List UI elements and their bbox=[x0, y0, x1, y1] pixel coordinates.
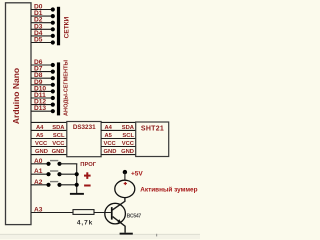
switch S1 PROG bbox=[46, 161, 77, 166]
node +5V bbox=[123, 170, 144, 178]
svg-text:VCC: VCC bbox=[52, 141, 65, 147]
IC U1 Arduino Nano bbox=[6, 3, 32, 225]
ground buttons bbox=[70, 193, 84, 195]
resistor R1 bbox=[73, 210, 94, 227]
wire A5-SCL left bbox=[31, 129, 67, 131]
wire bottom right bridge bbox=[101, 154, 136, 156]
pin D8 bbox=[31, 72, 55, 80]
svg-text:D5: D5 bbox=[34, 37, 43, 44]
svg-text:СЕТКИ: СЕТКИ bbox=[64, 16, 71, 38]
pin D7 bbox=[31, 66, 55, 74]
svg-text:GND: GND bbox=[104, 149, 117, 155]
wire A4-SDA right bbox=[101, 121, 136, 123]
wire VCC left bbox=[31, 138, 67, 140]
pin D1 bbox=[31, 10, 55, 18]
svg-text:SCL: SCL bbox=[53, 133, 65, 139]
wire VCC right bbox=[101, 138, 136, 140]
pin labels left bridge row3 bbox=[35, 141, 65, 147]
svg-text:A3: A3 bbox=[34, 207, 43, 214]
pin labels left bridge row4 bbox=[35, 149, 65, 155]
pin A3 bbox=[31, 207, 73, 214]
pin A1 bbox=[31, 168, 49, 175]
bus bar anode-segments bbox=[57, 62, 60, 115]
svg-text:DS3231: DS3231 bbox=[73, 124, 96, 131]
IC U3 SHT21 bbox=[136, 122, 169, 157]
switch S3 minus bbox=[46, 182, 77, 187]
svg-text:BC547: BC547 bbox=[127, 214, 142, 220]
pin D9 bbox=[31, 79, 55, 87]
svg-text:Активный зуммер: Активный зуммер bbox=[140, 185, 197, 193]
svg-text:SHT21: SHT21 bbox=[141, 125, 164, 132]
wire GND right bbox=[101, 146, 136, 148]
svg-text:VCC: VCC bbox=[104, 141, 117, 147]
pin labels right bridge row2 bbox=[105, 133, 135, 139]
pin labels left bridge row2 bbox=[36, 133, 65, 139]
wire bottom left bridge bbox=[31, 154, 67, 156]
svg-text:GND: GND bbox=[35, 149, 48, 155]
svg-text:A5: A5 bbox=[36, 133, 44, 139]
pin D11 bbox=[31, 92, 55, 100]
junction A2 common bbox=[75, 183, 79, 187]
bus bar grids bbox=[57, 7, 60, 46]
junction A1 common bbox=[75, 172, 79, 176]
svg-text:GND: GND bbox=[121, 149, 134, 155]
pin D5 bbox=[31, 37, 55, 45]
pin D2 bbox=[31, 17, 55, 25]
pin labels left bridge row1 bbox=[36, 125, 65, 131]
svg-text:+5V: +5V bbox=[131, 171, 143, 178]
svg-text:SDA: SDA bbox=[52, 125, 65, 131]
wire A5-SCL right bbox=[101, 129, 136, 131]
bottom edge strip bbox=[0, 235, 200, 239]
svg-text:SCL: SCL bbox=[122, 133, 134, 139]
svg-text:АНОДЫ-СЕГМЕНТЫ: АНОДЫ-СЕГМЕНТЫ bbox=[63, 60, 69, 116]
label plus bbox=[84, 172, 91, 179]
pin A0 bbox=[31, 158, 49, 165]
svg-text:A0: A0 bbox=[34, 158, 43, 165]
wire buttons common vertical bbox=[76, 164, 78, 193]
pin D10 bbox=[31, 85, 55, 93]
svg-text:SDA: SDA bbox=[122, 125, 135, 131]
pin D4 bbox=[31, 30, 55, 38]
svg-text:ПРОГ: ПРОГ bbox=[80, 162, 96, 168]
pin labels right bridge row3 bbox=[104, 141, 135, 147]
wire buzzer to collector bbox=[112, 198, 125, 210]
wire 5V to buzzer bbox=[124, 172, 126, 180]
svg-text:VCC: VCC bbox=[35, 141, 48, 147]
switch S2 plus bbox=[46, 171, 77, 176]
pin D3 bbox=[31, 23, 55, 31]
pin D0 bbox=[31, 4, 55, 12]
bottom tick mark bbox=[156, 234, 157, 237]
svg-text:A4: A4 bbox=[105, 125, 113, 131]
pin labels right bridge row1 bbox=[105, 125, 135, 131]
buzzer BZ1 bbox=[115, 180, 135, 197]
svg-text:Arduino Nano: Arduino Nano bbox=[11, 68, 21, 124]
wire A4-SDA left bbox=[31, 121, 67, 123]
svg-text:GND: GND bbox=[52, 149, 65, 155]
bottom edge line bbox=[0, 233, 200, 236]
svg-text:A4: A4 bbox=[36, 125, 44, 131]
pin A2 bbox=[31, 179, 49, 186]
transistor Q1 BC547 bbox=[94, 203, 141, 232]
pin labels right bridge row4 bbox=[104, 149, 135, 155]
svg-text:A2: A2 bbox=[34, 179, 43, 186]
pin D12 bbox=[31, 99, 55, 107]
label minus bbox=[84, 185, 91, 187]
svg-text:VCC: VCC bbox=[122, 141, 135, 147]
pin D13 bbox=[31, 105, 55, 113]
pin D6 bbox=[31, 59, 55, 67]
ground transistor bbox=[120, 233, 133, 235]
IC U2 DS3231 bbox=[67, 122, 101, 157]
svg-text:D13: D13 bbox=[34, 105, 46, 112]
svg-text:A5: A5 bbox=[105, 133, 113, 139]
svg-text:4,7k: 4,7k bbox=[77, 219, 93, 226]
wire GND left bbox=[31, 146, 67, 148]
svg-text:A1: A1 bbox=[34, 168, 43, 175]
